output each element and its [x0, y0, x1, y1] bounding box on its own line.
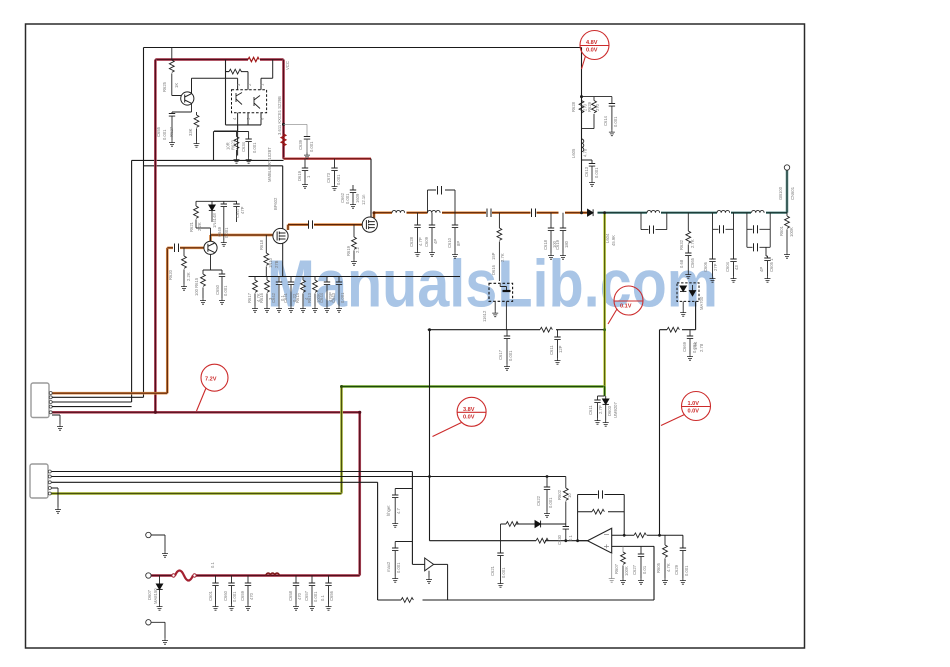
- wire left black vertical x=143.5: [143, 48, 145, 398]
- svg-text:33K: 33K: [188, 128, 193, 136]
- fuse squiggle on bottom red wire: [175, 571, 193, 581]
- svg-text:2.7K: 2.7K: [500, 253, 505, 262]
- svg-text:C649: C649: [217, 226, 222, 237]
- voltage callout 1.0V/0.0V: [661, 392, 711, 426]
- svg-text:R617: R617: [247, 292, 252, 303]
- svg-text:0.001: 0.001: [548, 497, 553, 508]
- double capacitor loop under L608: [747, 213, 770, 248]
- wire 1.0V net vertical x=659.5: [659, 330, 661, 536]
- svg-text:R628: R628: [571, 101, 576, 112]
- wire CN602 ground pin: [51, 488, 58, 507]
- svg-text:0.1V: 0.1V: [620, 304, 632, 310]
- output terminal CN601 GB100: [784, 165, 789, 170]
- pins 4 5 6 bottom rail: [214, 113, 261, 156]
- resistor R620 2.2K: [183, 248, 185, 256]
- svg-text:C619: C619: [555, 239, 560, 250]
- svg-text:D616: D616: [491, 264, 496, 275]
- capacitor C604 43: [733, 229, 735, 259]
- svg-text:C604: C604: [725, 261, 730, 272]
- capacitor C657 0.001: [311, 576, 313, 584]
- svg-text:45.9K: 45.9K: [611, 235, 616, 246]
- svg-text:0.01: 0.01: [642, 565, 647, 574]
- svg-text:L605: L605: [571, 148, 576, 158]
- diode D612 on main line: [588, 209, 594, 216]
- diode D610 1N4148: [209, 205, 215, 210]
- resistor R618 on gate drop: [265, 235, 267, 253]
- capacitor series C623 on orange: [487, 209, 491, 218]
- svg-text:1N4148: 1N4148: [212, 213, 217, 228]
- resistor R626 33K: [196, 112, 198, 115]
- capacitor C655 0.001: [169, 114, 175, 117]
- svg-text:R607: R607: [614, 563, 619, 574]
- resistor R605 4.7K: [664, 535, 666, 545]
- svg-text:0.001: 0.001: [594, 167, 599, 178]
- svg-text:C659: C659: [240, 590, 245, 601]
- svg-text:0.0V: 0.0V: [463, 414, 475, 420]
- capacitor C662 0.001: [352, 185, 354, 190]
- svg-text:0.001: 0.001: [508, 350, 513, 361]
- bypass capacitor loop under L606: [641, 213, 667, 230]
- svg-text:MA8150: MA8150: [153, 588, 158, 604]
- capacitor C643 0.001: [338, 277, 340, 283]
- capacitor C619 180 to ground: [562, 213, 564, 228]
- transistor Q603: [181, 92, 194, 105]
- svg-text:R601: R601: [779, 225, 784, 236]
- svg-text:C621: C621: [490, 565, 495, 576]
- svg-text:C630: C630: [557, 534, 562, 545]
- capacitor C601: [215, 576, 217, 584]
- bypass capacitor loop under L607: [713, 213, 734, 230]
- resistor R621 2.2K: [194, 206, 199, 218]
- svg-text:0.001: 0.001: [224, 227, 229, 238]
- emitter network R615 100: [203, 255, 222, 275]
- svg-text:D619: D619: [297, 170, 302, 181]
- resistor R604 red on dark red wire: [248, 57, 259, 61]
- svg-text:0.1: 0.1: [320, 595, 325, 601]
- pin 3: [237, 78, 239, 90]
- capacitor C650 0.001: [219, 274, 225, 277]
- svg-text:CN601: CN601: [790, 186, 795, 200]
- capacitor C647 47P: [233, 204, 239, 207]
- svg-text:D603: D603: [607, 405, 612, 416]
- capacitor D619 1 on red rail: [304, 159, 306, 168]
- capacitor C644 470P: [326, 277, 328, 283]
- svg-text:C606: C606: [703, 261, 708, 272]
- capacitor C613 0.001: [582, 160, 593, 164]
- svg-text:BF602: BF602: [273, 197, 278, 210]
- svg-text:VCC: VCC: [285, 61, 290, 70]
- svg-text:C657: C657: [304, 590, 309, 601]
- svg-text:2.7K: 2.7K: [690, 239, 695, 248]
- wire left black vertical x=131.6: [131, 160, 133, 402]
- wire opamp bottom rail y=600: [378, 546, 654, 600]
- wire green connector row y=493.5: [50, 492, 342, 495]
- svg-text:max2: max2: [386, 561, 391, 572]
- capacitor C642: [278, 277, 280, 283]
- wire minus input y=540.7: [430, 540, 588, 542]
- node VCC branch: [580, 95, 583, 98]
- wire dark red vertical x=155.4: [154, 60, 157, 412]
- svg-text:R627: R627: [169, 126, 174, 137]
- wire VCC top black run: [144, 47, 582, 49]
- svg-text:0.68: 0.68: [679, 259, 684, 268]
- resistor R630 on bottom rail: [401, 598, 413, 603]
- svg-text:C627: C627: [632, 564, 637, 575]
- capacitor series C648 on orange y=224.6: [309, 220, 313, 228]
- svg-text:C642: C642: [271, 292, 276, 303]
- wire CN603 pin4: [52, 406, 132, 408]
- dashed diode pair box D602: [677, 283, 699, 302]
- snubber rail above Q602: [196, 201, 237, 241]
- svg-text:C643: C643: [331, 292, 336, 303]
- svg-text:R602: R602: [557, 489, 562, 500]
- wire y=329.7 right segment: [660, 301, 696, 329]
- connector CN602: [30, 464, 48, 498]
- capacitor series on orange base wire: [175, 244, 179, 253]
- capacitor C659 470: [247, 576, 249, 584]
- svg-text:C601: C601: [208, 590, 213, 601]
- capacitor C629 0.001: [680, 548, 686, 551]
- resistor R612 on right y=330 segment: [667, 327, 679, 332]
- svg-text:0.001: 0.001: [309, 141, 314, 152]
- resistor R625 1K: [171, 48, 173, 61]
- wire orange base y=247.8: [167, 246, 204, 249]
- wire CN603 ground pin: [52, 415, 60, 424]
- svg-text:3.8V: 3.8V: [463, 407, 475, 413]
- inductor L602 on orange: [392, 210, 405, 212]
- wire dark red vertical x=283.5: [282, 60, 285, 159]
- terminal T602 on red line: [146, 573, 151, 578]
- svg-text:10: 10: [567, 493, 572, 498]
- svg-text:R629: R629: [587, 101, 592, 112]
- diode D603: [605, 396, 607, 399]
- svg-text:C629: C629: [674, 564, 679, 575]
- inductor L603 on orange: [428, 210, 441, 212]
- svg-text:0.001: 0.001: [313, 591, 318, 602]
- svg-text:C618: C618: [543, 239, 548, 250]
- wire black y=160.4: [132, 159, 284, 161]
- svg-text:0.001: 0.001: [223, 285, 228, 296]
- wire black from dark-red node down x=225.5: [226, 60, 262, 125]
- wire black vcc drop x=581.5: [581, 48, 583, 213]
- feedback vertical x=577.6: [577, 495, 579, 541]
- input row y=524 with resistor and diode: [501, 523, 566, 525]
- svg-text:470: 470: [297, 592, 302, 600]
- svg-text:15P: 15P: [491, 252, 496, 260]
- junction dot row2/x429.5: [428, 475, 431, 478]
- svg-text:R625: R625: [162, 81, 167, 92]
- svg-text:C617: C617: [498, 349, 503, 360]
- resistor R622: [229, 69, 241, 74]
- svg-text:4.7P: 4.7P: [418, 237, 423, 246]
- wire teal main run y=212.7: [598, 170, 788, 212]
- svg-text:270: 270: [595, 103, 600, 111]
- svg-text:0.001: 0.001: [345, 193, 350, 204]
- svg-text:C605 1: C605 1: [769, 258, 774, 272]
- node dark red row end: [358, 411, 361, 414]
- resistor R629 270: [593, 97, 595, 101]
- node vcc drop to diode: [580, 211, 583, 214]
- resistor R628 270: [582, 96, 613, 98]
- node feedback rail: [428, 328, 431, 331]
- resistor R607 100K: [622, 546, 624, 552]
- svg-text:0.001: 0.001: [232, 591, 237, 602]
- svg-text:GB100: GB100: [778, 186, 783, 200]
- feedback capacitor loop: [578, 494, 625, 496]
- resistor R619 2.2: [353, 225, 355, 237]
- svg-text:R621: R621: [189, 221, 194, 232]
- svg-text:R632: R632: [679, 239, 684, 250]
- wire orange main run y=212.7: [374, 213, 588, 218]
- resistor R601 100K: [786, 213, 788, 216]
- wire dark red vertical x=359.7: [358, 412, 361, 575]
- capacitor series C624 on orange: [532, 209, 536, 218]
- svg-text:12.1n: 12.1n: [361, 194, 366, 205]
- svg-text:0.0V: 0.0V: [688, 409, 700, 415]
- svg-text:C634: C634: [241, 141, 246, 152]
- svg-text:11612: 11612: [482, 310, 487, 322]
- terminal T601: [146, 532, 151, 537]
- junction with green net: [603, 211, 606, 214]
- wire green vertical x=341.5: [340, 387, 343, 494]
- svg-text:100 R615: 100 R615: [194, 277, 199, 296]
- capacitor C673 0.001 on red rail: [334, 159, 336, 168]
- junction dot gray branch: [282, 123, 285, 126]
- capacitor C658 470: [295, 576, 297, 584]
- buffer diode D605: [412, 563, 424, 565]
- svg-text:0.1: 0.1: [568, 535, 573, 541]
- resistor R602 10: [565, 477, 567, 489]
- schematic frame border: [26, 24, 805, 648]
- svg-text:C641: C641: [283, 292, 288, 303]
- MOSFET Q605: [362, 217, 377, 232]
- pin 1 wire to VCC node: [261, 60, 273, 90]
- capacitor C649 0.001: [221, 204, 227, 207]
- wire red power y=158.7: [284, 157, 372, 160]
- svg-text:C565: C565: [690, 257, 695, 268]
- wire orange FET1 to FET2 y=224.6: [288, 225, 362, 230]
- svg-text:R616: R616: [259, 292, 264, 303]
- svg-text:L604: L604: [605, 233, 610, 243]
- svg-text:C644: C644: [319, 292, 324, 303]
- opamp ground stub: [611, 553, 613, 576]
- svg-text:R613: R613: [307, 292, 312, 303]
- node dark red row / vertical: [154, 411, 157, 414]
- wire orange BJT collector to FET1 y=235: [211, 235, 274, 241]
- capacitor series C625 on orange: [559, 209, 561, 218]
- svg-text:100K: 100K: [789, 227, 794, 237]
- svg-text:0.0V: 0.0V: [586, 48, 598, 54]
- wire T603 to ground: [151, 622, 165, 638]
- capacitor C611 12P: [557, 330, 559, 337]
- svg-text:0.001: 0.001: [613, 116, 618, 127]
- svg-text:2.2: 2.2: [355, 247, 360, 253]
- svg-text:C658: C658: [288, 590, 293, 601]
- wire connector2 row1 y=471.5: [50, 472, 413, 565]
- svg-text:7.2V: 7.2V: [205, 377, 217, 383]
- capacitor C669 0.001: [689, 330, 691, 336]
- output apex wire: [578, 540, 588, 542]
- svg-text:D607: D607: [147, 589, 152, 600]
- svg-text:12P: 12P: [558, 345, 563, 353]
- svg-text:C673: C673: [326, 172, 331, 183]
- svg-text:0.001: 0.001: [684, 565, 689, 576]
- wire FET2 drain up to red rail: [370, 159, 372, 217]
- svg-text:R619: R619: [346, 245, 351, 256]
- svg-text:0.001: 0.001: [162, 129, 167, 140]
- svg-text:UM9207: UM9207: [613, 402, 618, 418]
- wire orange vertical x=167.3: [51, 248, 168, 393]
- svg-text:180: 180: [564, 240, 569, 248]
- svg-text:C628: C628: [409, 236, 414, 247]
- resistor R604 on output wire: [536, 538, 548, 543]
- svg-text:2.2K: 2.2K: [186, 272, 191, 281]
- svg-text:0.001: 0.001: [501, 567, 506, 578]
- capacitor C605 1: [766, 247, 768, 258]
- svg-text:3.611 KXCE1 S229B: 3.611 KXCE1 S229B: [277, 96, 282, 135]
- svg-text:4P: 4P: [759, 267, 764, 272]
- node orange main start: [373, 211, 376, 214]
- svg-text:C611: C611: [549, 345, 554, 355]
- svg-text:27B: 27B: [274, 260, 279, 268]
- svg-text:0.001: 0.001: [340, 292, 345, 303]
- inductor L608: [752, 210, 765, 212]
- connector CN603: [31, 383, 49, 418]
- capacitor C622 0.001: [546, 477, 548, 488]
- capacitor C641: [290, 277, 292, 283]
- terminal T603: [146, 620, 151, 625]
- node green corner: [340, 385, 343, 388]
- svg-text:1609: 1609: [355, 193, 360, 203]
- svg-text:C613: C613: [584, 166, 589, 177]
- wire green horizontal y=386.5: [342, 385, 605, 388]
- svg-text:R605: R605: [656, 562, 661, 573]
- svg-text:43: 43: [734, 265, 739, 270]
- svg-text:C609: C609: [424, 236, 429, 247]
- resistor R613 100K: [314, 277, 316, 281]
- capacitor C634 0.001: [248, 132, 250, 140]
- svg-text:C660: C660: [223, 590, 228, 601]
- feedback resistor loop: [578, 495, 625, 536]
- op-amp U601 pointing left: [588, 528, 612, 553]
- capacitor C622 8P to ground: [454, 213, 456, 225]
- svg-text:100K: 100K: [624, 566, 629, 576]
- svg-text:R623: R623: [231, 139, 236, 150]
- svg-text:2.2K: 2.2K: [197, 222, 202, 231]
- diode D607 MA8150: [159, 576, 161, 585]
- capacitor C617 0.001: [506, 330, 508, 336]
- branch capacitor C620 4.7: [395, 489, 412, 496]
- inductor L606: [647, 210, 660, 212]
- capacitor C656 0.1: [328, 576, 330, 584]
- junction dot row2 C622: [546, 475, 549, 478]
- capacitor C628 4.7P to ground: [417, 213, 419, 225]
- svg-text:0.001: 0.001: [252, 142, 257, 153]
- svg-text:C669: C669: [682, 341, 687, 352]
- resistor R666 red on dark red vertical: [281, 134, 285, 146]
- svg-text:4.8V: 4.8V: [586, 40, 598, 46]
- junction green/wire: [603, 328, 606, 331]
- capacitor C618 100 to ground: [550, 213, 552, 228]
- svg-text:470: 470: [249, 592, 254, 600]
- wire vertical x=429.5: [429, 330, 431, 541]
- svg-text:C622: C622: [536, 495, 541, 506]
- svg-text:4.7u: 4.7u: [583, 148, 588, 157]
- MOSFET Q604: [273, 228, 288, 243]
- driver dashed box M601: [489, 283, 513, 301]
- svg-text:4.7K: 4.7K: [666, 563, 671, 572]
- svg-text:C655: C655: [156, 126, 161, 137]
- gray stub wire with capacitor C639: [284, 124, 308, 136]
- svg-text:R614: R614: [295, 292, 300, 303]
- voltage callout 7.2V: [197, 364, 229, 411]
- plus input wire y=546.4: [612, 545, 654, 547]
- svg-text:MA700: MA700: [699, 296, 704, 310]
- component rail y=276.5: [249, 244, 461, 277]
- gate drop with resistor R603: [498, 213, 500, 228]
- wire CN603 pin2: [52, 396, 144, 398]
- svg-text:C650: C650: [215, 284, 220, 295]
- wire black y=165.8 gate feed: [144, 166, 283, 229]
- svg-text:C611: C611: [588, 405, 593, 415]
- inductor L605 4.7u: [582, 139, 584, 152]
- svg-text:1.0V: 1.0V: [688, 401, 700, 407]
- inductor L607: [717, 210, 730, 212]
- capacitor C621 0.001: [500, 524, 502, 553]
- transistor Q602: [204, 241, 217, 254]
- svg-text:C614: C614: [603, 115, 608, 126]
- branch capacitor C626 0.001: [395, 542, 412, 549]
- svg-text:hhget: hhget: [386, 505, 391, 516]
- resistor R614: [302, 277, 304, 281]
- capacitor C606 27P: [712, 229, 714, 259]
- svg-text:MMBL60RY102BT: MMBL60RY102BT: [267, 147, 272, 182]
- capacitor C614 0.001: [611, 97, 613, 104]
- svg-text:1K: 1K: [174, 83, 179, 88]
- resistor R623 10R: [214, 125, 249, 160]
- svg-text:R618: R618: [259, 239, 264, 250]
- svg-text:0.1: 0.1: [210, 562, 215, 568]
- voltage callout 4.8V/0.0V: [580, 31, 609, 70]
- wire dark red top y=59.5: [155, 58, 283, 61]
- parallel capacitor bridge over L603: [428, 190, 456, 213]
- svg-text:0.001: 0.001: [396, 562, 401, 573]
- wire connector2 row3 y=482.3: [50, 482, 378, 600]
- wire T601 to ground: [151, 535, 165, 551]
- svg-text:27P: 27P: [713, 263, 718, 271]
- svg-text:2.7P: 2.7P: [598, 405, 603, 414]
- svg-text:1.94: 1.94: [693, 341, 698, 350]
- svg-text:0.001: 0.001: [336, 174, 341, 185]
- dual transistor dashed box Q601: [232, 90, 267, 113]
- svg-text:C639: C639: [298, 139, 303, 150]
- svg-text:2.78: 2.78: [699, 343, 704, 352]
- wire feedback rail y=329.7 left segment: [428, 329, 605, 331]
- capacitor C660 0.001: [231, 576, 233, 584]
- capacitor C630 0.1: [565, 524, 567, 527]
- svg-text:4P: 4P: [433, 239, 438, 244]
- resistor R617 4.7K: [254, 277, 256, 281]
- svg-text:47P: 47P: [240, 206, 245, 214]
- wire green stub x=604.6 below: [603, 387, 606, 397]
- wire connector2 row2 y=476.5: [50, 476, 566, 478]
- voltage callout 0.1V: [608, 286, 643, 324]
- wire dark red bottom y=575.5: [148, 574, 359, 577]
- wire dark red connector row y=412.3: [51, 411, 360, 414]
- capacitor C627 0.01: [640, 546, 642, 554]
- resistor R632 2.7K drop: [687, 213, 689, 231]
- svg-text:R620: R620: [168, 269, 173, 280]
